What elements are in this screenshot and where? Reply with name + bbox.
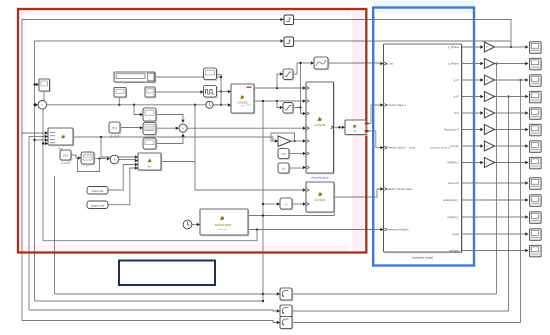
wire gain2 feedback loop <box>271 133 295 141</box>
rate transition RT2 <box>280 305 293 318</box>
wire top wire B to tag2 <box>35 40 281 42</box>
junction x263-rail1 <box>262 293 264 295</box>
scope S10 <box>530 195 542 207</box>
port arrow sum2 in <box>107 157 110 160</box>
wire m_bot to sum1 bottom <box>156 137 183 144</box>
junction sat2 branch2 <box>299 106 301 108</box>
port arrow display0 in <box>36 83 39 86</box>
wire port11 to scope11 <box>462 216 526 218</box>
junction x263 start <box>262 100 264 102</box>
wire port5 to gain5 <box>462 112 481 114</box>
subsystem SIM-IN U4 <box>138 153 162 171</box>
port arrow gain8 in <box>480 161 483 164</box>
junction v3-display0 <box>33 83 35 85</box>
port arrow sum1 in <box>176 127 179 130</box>
wire vertical collector x221 <box>220 75 222 106</box>
subsystem input chevron y147.6 <box>384 146 386 149</box>
subsystem SOUND U6 <box>200 209 249 236</box>
port arrow PS in2 <box>228 103 231 106</box>
port arrow scope1 in <box>525 45 528 48</box>
source B1 <box>145 87 156 98</box>
sum junction circle SUM2 <box>110 155 119 164</box>
port arrow fcn in <box>342 126 345 129</box>
svg-text:hydraulic model: hydraulic model <box>412 255 433 259</box>
junction riser3-row3 <box>519 79 521 81</box>
port arrow pulse in <box>200 90 203 93</box>
wire bottom rail 1 <box>55 293 277 295</box>
repeating sequence RS1 <box>204 68 218 80</box>
scope S8 <box>530 157 542 169</box>
tall1 input chevron y101 <box>307 100 309 103</box>
junction riser1-row2 <box>495 62 497 64</box>
wire PID out to tall1 in6 <box>289 153 303 155</box>
svg-text:q_rP: q_rP <box>454 78 460 82</box>
scope S6 <box>530 124 542 136</box>
scope S9 <box>530 178 542 190</box>
scope S1 <box>530 42 542 54</box>
svg-text:source-Pt: source-Pt <box>448 181 459 185</box>
junction v3-sum0 <box>33 104 35 106</box>
wire input.mat chain <box>108 165 135 191</box>
port arrow scope5 in <box>525 111 528 114</box>
junction v4-mux4 <box>42 142 44 144</box>
svg-text:reg(b(t))_r: reg(b(t))_r <box>447 215 459 219</box>
port arrow tall2 in2 <box>303 202 306 205</box>
wire gain2 out to tall1 in5 <box>291 140 303 142</box>
port arrow gain4 in <box>480 95 483 98</box>
wire PS out2 to tall1 in2 <box>254 100 303 102</box>
port arrow qhat icon in <box>311 61 314 64</box>
lookup block L1 <box>143 108 157 122</box>
port arrow Variable Throttle port <box>380 187 383 190</box>
scope S13 <box>530 245 542 256</box>
tall1 input chevron y153.5 <box>307 152 309 155</box>
subsystem input chevron y229.5 <box>384 228 386 231</box>
svg-text:virtual location: virtual location <box>311 176 329 180</box>
pulse generator PG1 <box>204 86 218 98</box>
junction branch sat1 <box>276 87 278 89</box>
port arrow m_top in <box>140 113 143 116</box>
port arrow scope11 in <box>525 215 528 218</box>
svg-text:pressure-factor y: pressure-factor y <box>430 146 450 150</box>
scope S7 <box>530 141 542 153</box>
wire fcn out2 to DV2 <box>369 131 381 148</box>
port arrow scope8 in <box>525 161 528 164</box>
port arrow flame3 in4 <box>135 166 138 169</box>
svg-text:pr: pr <box>87 165 89 168</box>
port arrow tall1 in3 <box>303 112 306 115</box>
wire output.mat chain <box>108 168 135 205</box>
wire vertical x54.5 down to bottom loop1 <box>54 176 56 294</box>
matrix gain M2 <box>81 152 95 165</box>
port arrow tall1 in4 <box>303 127 306 130</box>
port arrow tall1 in2 <box>303 99 306 102</box>
display D0 <box>39 79 50 92</box>
port arrow PS in1 <box>228 90 231 93</box>
svg-text:[T,U]: [T,U] <box>63 154 68 157</box>
wire gain2 to scope2 <box>495 63 526 65</box>
tall1 input chevron y113.5 <box>307 112 309 115</box>
wire riser x520.5 <box>520 80 522 323</box>
port arrow sum1 top in <box>181 120 184 123</box>
wire gain4 to scope4 <box>495 96 526 98</box>
junction branch blockA <box>118 104 120 106</box>
blue selection frame <box>373 8 474 266</box>
wire sat1 out up <box>293 63 297 74</box>
saturation SAT1 <box>283 69 294 80</box>
fcn red output marks <box>365 122 369 124</box>
tall1 input chevron y167.5 <box>307 166 309 169</box>
wire sum0 output long wire <box>46 104 228 106</box>
wire long vertical x263 <box>262 101 264 301</box>
wire x263 branch to pm block <box>263 203 277 205</box>
rate transition RT1 <box>280 288 293 301</box>
port arrow flame3 in1 <box>135 155 138 158</box>
svg-text:Direction Value 1: Direction Value 1 <box>387 103 407 107</box>
port arrow tall1 in5 <box>303 139 306 142</box>
wire gain6 to scope6 <box>495 129 526 131</box>
matlab function FCN1 <box>345 120 367 135</box>
wire sound out2 feedback to left bus <box>43 230 257 241</box>
junction stairs-pulse junction <box>220 90 222 92</box>
junction branch sat2 <box>276 100 278 102</box>
port arrow mux in1 <box>45 131 48 134</box>
wire left bus v4 (sum0 down / feedback) <box>42 109 44 241</box>
wire B1 out rail right <box>292 293 497 295</box>
rate transition RT3 <box>280 317 293 330</box>
cyan tint above blue frame <box>374 1 475 6</box>
subsystem input chevron y105 <box>384 104 386 107</box>
svg-text:q_hat: q_hat <box>387 62 394 66</box>
tag output.mat <box>87 201 108 209</box>
wire stub v3 to mux in3 <box>35 139 45 141</box>
junction x263-pm <box>262 203 264 205</box>
junction branch flame3 in1 <box>100 136 102 138</box>
wire pm out to tall2 in2 <box>292 203 303 205</box>
port arrow Reference Position port <box>380 228 383 231</box>
port arrow mux in3 <box>45 138 48 141</box>
gain triangle G8 <box>484 158 494 168</box>
junction sound out2 branch <box>256 228 258 230</box>
svg-text:Variable Throttle Value: Variable Throttle Value <box>387 187 414 191</box>
svg-text:th-S: th-S <box>454 111 459 115</box>
wire port4 to gain4 <box>462 96 481 98</box>
junction riser2-row4 <box>507 95 509 97</box>
wire tall2 out to VTV port <box>334 189 380 197</box>
port arrow into B2 <box>277 309 280 312</box>
junction v3-mux3 <box>33 139 35 141</box>
wire tall1 out to fcn <box>334 126 342 128</box>
port arrow pm in <box>277 202 280 205</box>
wire wide block out right <box>156 76 222 78</box>
wire TU1 to m_mid <box>120 127 140 129</box>
scope S5 <box>530 108 542 120</box>
wire B2 out rail right <box>292 310 509 312</box>
wire sound out1 under AUVSIM3 <box>248 215 335 217</box>
svg-text:output.mat: output.mat <box>91 203 104 207</box>
port arrow gain1 in <box>480 45 483 48</box>
port arrow sat2 in <box>280 106 283 109</box>
subsystem input chevron y63.6 <box>384 62 386 65</box>
port arrow into B1 <box>277 292 280 295</box>
saturation SAT2 <box>283 103 294 114</box>
svg-text:q_lPhase: q_lPhase <box>448 62 459 66</box>
wire port2 to gain2 <box>462 63 481 65</box>
estimator block E1 <box>314 57 329 70</box>
wire x195 chain down to tall2 in1 <box>195 105 303 190</box>
scope S3 <box>530 75 542 87</box>
port arrow scope4 in <box>525 95 528 98</box>
port arrow gain2 in <box>275 139 278 142</box>
wire sound out1 up stub <box>334 213 336 216</box>
svg-text:+: + <box>182 127 184 131</box>
wire pr feedback loop <box>78 159 100 172</box>
port arrow flame3 in3 <box>135 163 138 166</box>
wire x263 to B1 segment <box>263 293 277 295</box>
scope S2 <box>530 58 542 70</box>
wire port3 to gain3 <box>462 79 481 81</box>
clock CLK1 <box>206 101 213 108</box>
junction clock junction <box>220 104 222 106</box>
display block D1 <box>143 138 157 150</box>
port arrow mux in4 <box>45 142 48 145</box>
port arrow into tag1 <box>280 18 283 21</box>
integrator I1 <box>278 163 290 174</box>
wire fcn out1 to DV1 <box>369 105 381 123</box>
wire m_top to sum1 top <box>156 115 183 120</box>
subsystem "hydraulic model" U1 <box>384 44 463 253</box>
junction x263-rail2 <box>262 300 264 302</box>
wire sat1 in stub <box>277 73 280 75</box>
svg-text:Sim: Sim <box>148 167 152 169</box>
red mark on PS block <box>247 87 252 88</box>
port arrow sound in <box>197 223 200 226</box>
port arrow gain7 in <box>480 144 483 147</box>
wire stairs out stub <box>217 74 222 76</box>
port arrow scope13 in <box>525 249 528 252</box>
gain triangle G3 <box>484 75 494 85</box>
tall1 input chevron y88 <box>307 87 309 90</box>
wire riser x508.5 <box>508 97 510 312</box>
svg-text:WPM(k)_r: WPM(k)_r <box>447 161 459 165</box>
junction branch x195 <box>194 104 196 106</box>
wire left bus v2 <box>28 137 30 311</box>
svg-text:vel-b(t)A: vel-b(t)A <box>449 249 459 253</box>
port arrow gain6 in <box>480 128 483 131</box>
gain triangle G2 <box>484 59 494 69</box>
wire gain7 to scope7 <box>495 145 526 147</box>
svg-text:q_lP: q_lP <box>454 95 459 99</box>
subsystem AUVSIM3 U5 <box>306 182 335 213</box>
goto tag T1 <box>284 15 294 25</box>
gain triangle G1 <box>484 42 494 52</box>
wire sum2 to flame3 in2 <box>119 159 135 161</box>
svg-text:[T,U]: [T,U] <box>112 127 117 130</box>
wire stub v2 to mux in2 <box>29 136 45 138</box>
wire port7 to gain7 <box>462 145 481 147</box>
wire display0 to sum0 vertical <box>43 91 45 101</box>
tag input.mat <box>87 187 108 195</box>
wire gain3 to scope3 <box>495 79 526 81</box>
sum junction circle SUM0 <box>38 101 47 110</box>
port arrow gain3 in <box>480 78 483 81</box>
port arrow sat1 in <box>280 72 283 75</box>
port arrow tall1 in1 <box>303 86 306 89</box>
port arrow sum1 bottom in <box>181 133 184 136</box>
port arrow Direction Value 2 port <box>380 146 383 149</box>
port arrow flame3 in2 <box>135 159 138 162</box>
svg-text:MHz band: MHz band <box>218 229 229 231</box>
port arrow pr in <box>78 156 81 159</box>
svg-text:PID: PID <box>281 153 285 156</box>
bus creator MUX1 <box>48 128 74 146</box>
scope S11 <box>530 212 542 224</box>
port arrow tall2 in1 <box>303 188 306 191</box>
svg-text:Rotation(r)-S: Rotation(r)-S <box>444 128 459 132</box>
svg-text:Reference Position: Reference Position <box>387 228 409 232</box>
wire stub v3 to display0 <box>35 84 36 86</box>
port arrow into B3 <box>277 321 280 324</box>
port arrow scope10 in <box>525 198 528 201</box>
matrix gain M1 <box>143 123 157 136</box>
wire gain5 to scope5 <box>495 112 526 114</box>
wire m_mid to sum1 <box>156 127 175 129</box>
junction pr loop junction <box>98 157 100 159</box>
wire sat1 branch vertical <box>276 74 278 88</box>
port arrow tall1 in7 <box>303 166 306 169</box>
wire riser x496.5 <box>496 64 498 295</box>
svg-text:+: + <box>41 103 43 107</box>
wire wire B continue right <box>294 40 512 42</box>
port arrow scope7 in <box>525 144 528 147</box>
wire port10 to scope10 <box>462 199 526 201</box>
PID block PID1 <box>278 149 290 160</box>
navy annotation box <box>119 261 215 286</box>
port arrow scope3 in <box>525 78 528 81</box>
pink tint band inside red frame right <box>352 10 364 251</box>
port arrow scope2 in <box>525 62 528 65</box>
wire mux out long wire to gain2 <box>73 137 275 141</box>
svg-text:Direction Value 2: Direction Value 2 <box>387 146 407 150</box>
svg-text:(q-Q)t: (q-Q)t <box>452 232 459 236</box>
wire stub v4 to mux in4 <box>43 143 45 145</box>
sign block SGN1 <box>280 198 293 210</box>
port arrow sum0 in <box>35 103 38 106</box>
wire PS out1 to tall1 in1 <box>254 87 303 89</box>
from file FF2 <box>60 150 72 161</box>
svg-text:r-prsn(r): r-prsn(r) <box>450 144 460 148</box>
svg-text:SOUND-S(B)S: SOUND-S(B)S <box>215 224 232 227</box>
wire feed m_top <box>134 105 140 115</box>
wire to flame3 in1 <box>101 137 135 157</box>
port arrow m_mid in <box>140 126 143 129</box>
wire clock1 out <box>213 104 221 106</box>
wire flame3 out right <box>161 161 195 163</box>
svg-text:position(xH)_r: position(xH)_r <box>443 198 459 202</box>
wire port12 to scope12 <box>462 233 526 235</box>
svg-text:+: + <box>114 158 116 162</box>
wire clock2 to sound <box>192 224 197 226</box>
port arrow gain2 in <box>480 62 483 65</box>
signal builder SB1 <box>114 72 156 83</box>
junction wide-collector junction <box>220 76 222 78</box>
svg-text:q_rPhase: q_rPhase <box>448 45 460 49</box>
wire sat2 branch <box>277 101 280 108</box>
svg-text:+/-: +/- <box>284 202 287 206</box>
wire bottom rail 4 <box>22 321 277 323</box>
svg-text:u1.u2.u3: u1.u2.u3 <box>110 135 120 138</box>
wire sum1 out to tall1 in4 <box>187 127 303 129</box>
port arrow into tag2 <box>280 39 283 42</box>
wire pr out to sum2 <box>94 158 106 160</box>
scope A1 <box>114 88 127 98</box>
wire q_hat block feed <box>297 62 311 64</box>
tall1 input chevron y141 <box>307 140 309 143</box>
wire port8 to gain8 <box>462 162 481 164</box>
svg-text:AUVSIM2: AUVSIM2 <box>314 124 326 127</box>
wire top wire A to tag1 <box>22 19 280 21</box>
port arrow scope9 in <box>525 181 528 184</box>
wire port13 to scope13 <box>462 250 526 252</box>
scope S12 <box>530 229 542 241</box>
wire stub v1 to mux in1 <box>22 132 45 134</box>
junction branch m_top <box>133 104 135 106</box>
port arrow scope6 in <box>525 128 528 131</box>
wire bottom rail 2 joins x263 <box>35 300 264 302</box>
wire sat2 to tall1 in3 <box>301 108 303 114</box>
from file FF1 <box>109 122 121 134</box>
junction fcn in dot <box>338 126 340 128</box>
wire port1 to gain1 <box>462 46 481 48</box>
clock CLK2 <box>183 220 192 229</box>
sum junction circle SUM1 <box>179 124 187 132</box>
port arrow Direction Value 1 port <box>380 103 383 106</box>
gain triangle G5 <box>484 108 494 118</box>
goto tag T2 <box>284 37 294 47</box>
subsystem input chevron y189 <box>384 188 386 191</box>
wire TU2 to pr <box>71 155 78 158</box>
wire stub up to blockA <box>118 97 120 105</box>
junction sound out1 crossing <box>262 214 264 216</box>
port arrow tall1 in6 <box>303 152 306 155</box>
gain triangle G4 <box>484 92 494 102</box>
subsystem AUVSIM2 U3 <box>306 82 334 174</box>
wire left bus v1 <box>21 20 23 321</box>
wire pulse out to PS in1 <box>217 91 228 93</box>
wire sat2 out up <box>293 63 301 108</box>
wire wire A continue right down to row1 <box>294 20 512 48</box>
wire port6 to gain6 <box>462 129 481 131</box>
wire qhat icon out to subsystem <box>328 62 380 64</box>
wire gain8 to scope8 <box>495 162 526 164</box>
tall1 output chevron <box>331 126 333 129</box>
gain triangle G7 <box>484 141 494 151</box>
wire one-over-s out to tall1 in7 <box>289 167 303 169</box>
svg-text:input.mat: input.mat <box>92 189 104 193</box>
red selection frame <box>18 9 366 253</box>
port arrow q_hat port <box>380 62 383 65</box>
wire blockB to pulse in <box>155 91 200 93</box>
wire B3 out rail right <box>292 322 521 324</box>
svg-text:mode: mode <box>409 146 416 150</box>
port arrow gain5 in <box>480 111 483 114</box>
svg-text:AUVSIM3: AUVSIM3 <box>315 199 327 202</box>
scope S4 <box>530 91 542 103</box>
gain triangle G0 <box>278 136 291 146</box>
svg-text:u1.u2.u3: u1.u2.u3 <box>61 163 71 165</box>
wire left bus v3 <box>34 41 36 301</box>
tall1 input chevron y128.2 <box>307 127 309 130</box>
